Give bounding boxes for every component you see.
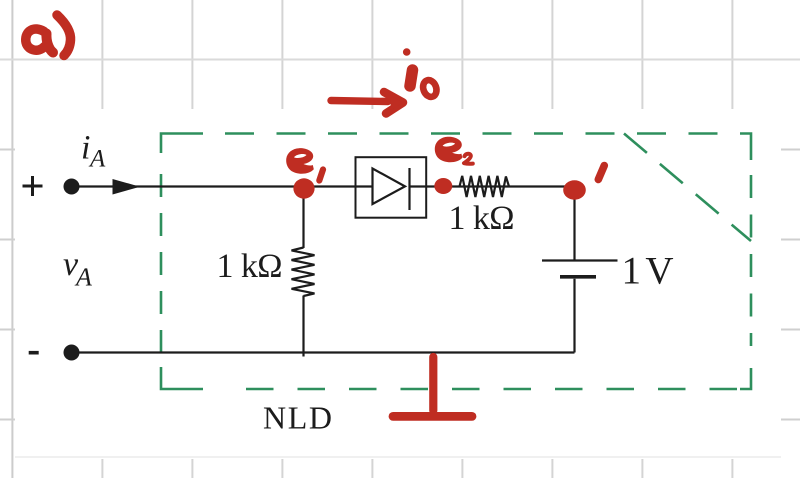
handwritten a) [26, 29, 45, 50]
horizontal grid line y=59.5 [0, 59, 800, 61]
svg-text:NLD: NLD [263, 400, 332, 436]
box bottom-right corner [740, 368, 751, 389]
current arrow head on top wire [113, 179, 141, 195]
left vertical grid line full height [11, 0, 13, 478]
horizontal grid stubs right edge [781, 150, 800, 420]
wire top: diode box to right node [426, 185, 575, 187]
svg-text:1 V: 1 V [622, 250, 674, 293]
box right edge [750, 175, 753, 346]
svg-text:A: A [88, 146, 106, 173]
node e1 dot [293, 178, 314, 198]
NLD dashed box (green) [161, 134, 751, 390]
diode D1 cathode bar [408, 168, 410, 210]
plus sign [23, 176, 43, 196]
wire e1 down to resistor [302, 187, 304, 249]
minus sign [29, 351, 39, 355]
battery V1 short plate [560, 275, 596, 279]
battery V1 long plate [542, 259, 618, 261]
box bottom-left corner [161, 367, 203, 389]
resistor R2 1k horizontal zigzag [460, 176, 510, 197]
svg-text:1 kΩ: 1 kΩ [449, 200, 515, 237]
horizontal grid stubs left edge [0, 150, 15, 420]
handwritten e1 label [286, 148, 314, 174]
terminal + dot [64, 179, 80, 195]
box top edge [225, 132, 740, 135]
handwritten e2 label [435, 137, 463, 163]
diode D1 triangle [373, 169, 406, 205]
handwritten iD label [410, 70, 413, 86]
box bottom edge [246, 388, 739, 391]
resistor R1 1k vertical zigzag [292, 248, 315, 297]
wire top: + terminal to diode box [79, 185, 356, 187]
pasted image bottom edge [15, 456, 781, 458]
bottom wire [72, 351, 575, 353]
handwritten tick at right node [598, 166, 604, 180]
wire right node down to battery [573, 189, 575, 260]
right node dot [563, 180, 586, 200]
wire resistor to bottom [302, 296, 304, 357]
terminal - dot [64, 345, 80, 361]
diode D1 anode/cathode wire stubs [356, 185, 426, 187]
box top-left corner [161, 134, 203, 154]
handwritten ground symbol [429, 357, 437, 411]
handwritten arrow for iD [331, 101, 388, 102]
box top-right corner [740, 134, 751, 161]
vertical grid lines top band [102, 0, 732, 109]
box left edge [160, 174, 163, 367]
svg-text:1 kΩ: 1 kΩ [217, 248, 283, 285]
wire battery to bottom wire [573, 279, 575, 353]
diagonal dashed cut line [624, 134, 751, 242]
svg-text:A: A [74, 263, 92, 292]
diode box U1 [356, 157, 427, 218]
red annotations [26, 15, 605, 416]
vertical grid lines bottom band [102, 459, 732, 478]
node e2 dot [434, 178, 452, 194]
black circuit [72, 157, 618, 356]
